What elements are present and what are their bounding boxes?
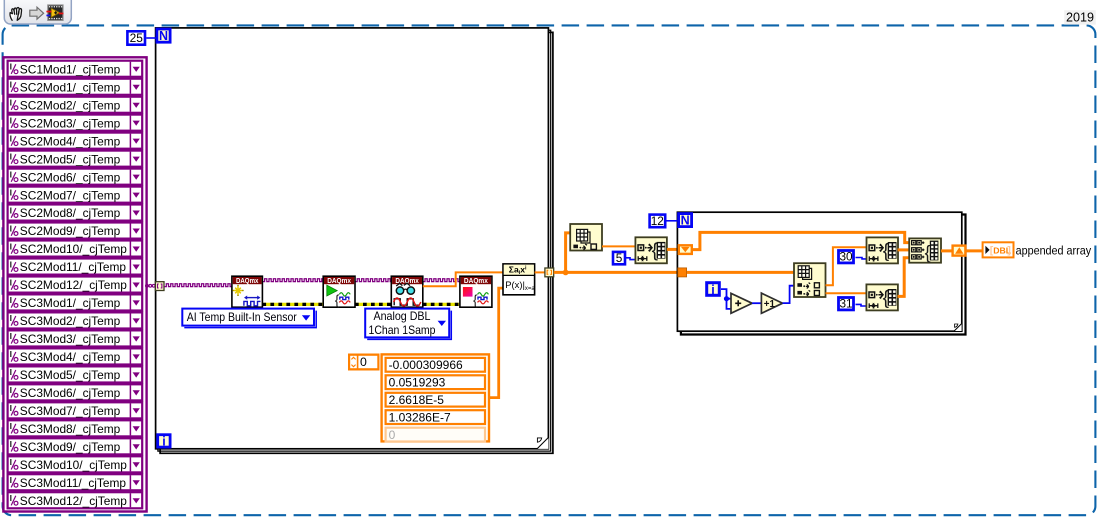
svg-text:2.6618E-5: 2.6618E-5 bbox=[389, 393, 445, 407]
for loop 1 resize dog-ear bbox=[537, 437, 549, 449]
svg-text:SC3Mod4/_cjTemp: SC3Mod4/_cjTemp bbox=[20, 350, 121, 364]
wire: add to increment bbox=[752, 302, 761, 304]
channel constant SC3Mod11/_cjTemp bbox=[8, 474, 143, 490]
loop 1 auto-indexing output tunnel bbox=[545, 268, 554, 277]
array size function bbox=[570, 224, 602, 251]
svg-text:I: I bbox=[10, 277, 12, 287]
array element 0.0519293 bbox=[386, 375, 485, 389]
build array function bbox=[909, 238, 941, 262]
wire 12 to N bbox=[666, 220, 677, 222]
numeric constant 30 bbox=[839, 251, 854, 263]
svg-text:31: 31 bbox=[839, 297, 852, 311]
channel constant SC2Mod12/_cjTemp bbox=[8, 277, 143, 293]
svg-text:i: i bbox=[711, 283, 714, 297]
svg-text:N: N bbox=[681, 214, 690, 228]
reshape array 3 bbox=[866, 284, 898, 310]
svg-text:SC1Mod1/_cjTemp: SC1Mod1/_cjTemp bbox=[20, 62, 121, 76]
wire junction at i bbox=[724, 296, 729, 301]
DAQmx Create Virtual Channel VI bbox=[232, 276, 263, 307]
left shift register bbox=[679, 245, 692, 254]
channel constant SC3Mod10/_cjTemp bbox=[8, 456, 143, 472]
svg-text:SC2Mod2/_cjTemp: SC2Mod2/_cjTemp bbox=[20, 98, 121, 112]
svg-text:+1: +1 bbox=[764, 299, 776, 310]
wire: tunnel to DAQmx create channel (task/channel zigzag) bbox=[164, 284, 232, 287]
svg-text:DAQmx: DAQmx bbox=[327, 276, 351, 285]
svg-text:SC3Mod12/_cjTemp: SC3Mod12/_cjTemp bbox=[20, 494, 127, 508]
svg-text:I: I bbox=[10, 241, 12, 251]
for loop 2 border bbox=[677, 212, 965, 334]
svg-text:N: N bbox=[159, 29, 168, 43]
hand (pan) tool icon bbox=[10, 8, 22, 21]
channel constant SC3Mod5/_cjTemp bbox=[8, 366, 143, 382]
channel constant SC3Mod1/_cjTemp bbox=[8, 294, 143, 310]
wire: 31 to reshape 3 bbox=[856, 304, 867, 306]
wire: index array out 1 to reshape 2 bbox=[826, 247, 867, 285]
svg-text:{: { bbox=[925, 243, 931, 263]
channel constant SC2Mod9/_cjTemp bbox=[8, 223, 143, 239]
DAQmx Read VI bbox=[391, 276, 423, 307]
polynomial evaluation node bbox=[503, 264, 535, 295]
svg-text:SC3Mod9/_cjTemp: SC3Mod9/_cjTemp bbox=[20, 440, 121, 454]
svg-text:I: I bbox=[10, 187, 12, 197]
svg-text:12: 12 bbox=[651, 214, 664, 228]
svg-text:I: I bbox=[10, 367, 12, 377]
channel constant SC3Mod6/_cjTemp bbox=[8, 384, 143, 400]
svg-text:2019: 2019 bbox=[1066, 11, 1094, 25]
wire: read to clear task bbox=[423, 279, 460, 282]
wire: index array out 2 to reshape 3 bbox=[826, 292, 867, 294]
wire junction bbox=[563, 270, 569, 276]
loop 1 auto-indexing input tunnel bbox=[155, 282, 164, 291]
svg-text:SC2Mod10/_cjTemp: SC2Mod10/_cjTemp bbox=[20, 242, 127, 256]
wire: array size to reshape array bbox=[602, 245, 635, 247]
svg-text:Σaixi: Σaixi bbox=[509, 264, 527, 275]
coefficient array constant shell bbox=[382, 354, 489, 441]
wire: coefficient array to polynomial node bbox=[489, 288, 503, 398]
svg-text:5: 5 bbox=[616, 251, 623, 265]
snippet toolbar bbox=[4, 0, 71, 24]
svg-text:I: I bbox=[10, 169, 12, 179]
channel constant SC2Mod7/_cjTemp bbox=[8, 187, 143, 203]
channel constant SC2Mod1/_cjTemp bbox=[8, 79, 143, 95]
svg-text:30: 30 bbox=[839, 250, 853, 264]
numeric constant 5 bbox=[613, 252, 625, 264]
array element 2.6618E-5 bbox=[386, 393, 485, 407]
svg-text:SC2Mod6/_cjTemp: SC2Mod6/_cjTemp bbox=[20, 170, 121, 184]
loop 1 count terminal N bbox=[157, 29, 170, 42]
svg-text:SC2Mod9/_cjTemp: SC2Mod9/_cjTemp bbox=[20, 224, 121, 238]
svg-text:SC2Mod11/_cjTemp: SC2Mod11/_cjTemp bbox=[20, 260, 127, 274]
reshape array 1 bbox=[635, 237, 667, 263]
VI snippet film icon bbox=[46, 5, 63, 20]
svg-text:SC2Mod3/_cjTemp: SC2Mod3/_cjTemp bbox=[20, 116, 121, 130]
svg-text:1.03286E-7: 1.03286E-7 bbox=[389, 411, 451, 425]
svg-text:SC2Mod1/_cjTemp: SC2Mod1/_cjTemp bbox=[20, 80, 121, 94]
index array function bbox=[794, 263, 826, 297]
svg-text:SC3Mod11/_cjTemp: SC3Mod11/_cjTemp bbox=[20, 476, 127, 490]
for loop 1 border bbox=[156, 28, 553, 453]
wire: start task to read bbox=[355, 279, 391, 282]
wire: build array to right shift register bbox=[941, 249, 953, 252]
loop 1 iteration terminal i bbox=[158, 435, 170, 447]
enum constant AI Temp Built-In Sensor bbox=[182, 309, 316, 328]
channel constant SC3Mod3/_cjTemp bbox=[8, 330, 143, 346]
channel constant SC2Mod3/_cjTemp bbox=[8, 115, 143, 131]
svg-text:{: { bbox=[473, 293, 478, 308]
DAQmx Start Task VI bbox=[323, 276, 355, 308]
wire: 30 to reshape 2 bbox=[856, 258, 867, 259]
channel constant SC2Mod5/_cjTemp bbox=[8, 151, 143, 167]
svg-text:SC2Mod5/_cjTemp: SC2Mod5/_cjTemp bbox=[20, 152, 121, 166]
arrow icon bbox=[30, 7, 44, 19]
svg-text:I: I bbox=[10, 133, 12, 143]
svg-text:0: 0 bbox=[389, 428, 396, 442]
svg-text:-0.000309966: -0.000309966 bbox=[389, 358, 463, 372]
svg-text:I: I bbox=[10, 403, 12, 413]
channel constant SC2Mod6/_cjTemp bbox=[8, 169, 143, 185]
right shift register bbox=[953, 246, 966, 256]
error wire start-read bbox=[355, 303, 391, 306]
for loop 2 resize dog-ear bbox=[954, 324, 961, 331]
array element dimmed 0 bbox=[386, 428, 485, 442]
DAQmx physical channel array constant bbox=[3, 57, 146, 511]
svg-text:SC3Mod3/_cjTemp: SC3Mod3/_cjTemp bbox=[20, 332, 121, 346]
svg-text:I: I bbox=[10, 223, 12, 233]
channel constant SC1Mod1/_cjTemp bbox=[8, 61, 143, 77]
numeric constant 25 bbox=[127, 31, 145, 44]
svg-text:I: I bbox=[10, 259, 12, 269]
svg-text:SC3Mod7/_cjTemp: SC3Mod7/_cjTemp bbox=[20, 404, 121, 418]
coefficient array index display bbox=[348, 354, 380, 371]
svg-text:I: I bbox=[10, 313, 12, 323]
channel constant SC2Mod10/_cjTemp bbox=[8, 241, 143, 257]
wire: increment to index array bbox=[783, 286, 794, 303]
svg-text:0: 0 bbox=[360, 355, 367, 369]
numeric constant 31 bbox=[839, 298, 854, 310]
svg-text:SC2Mod4/_cjTemp: SC2Mod4/_cjTemp bbox=[20, 134, 121, 148]
svg-text:I: I bbox=[10, 80, 12, 90]
channel constant SC3Mod7/_cjTemp bbox=[8, 402, 143, 418]
svg-text:I: I bbox=[10, 115, 12, 125]
svg-text:]: ] bbox=[1007, 246, 1010, 257]
svg-text:Analog DBL: Analog DBL bbox=[374, 309, 431, 323]
svg-text:i: i bbox=[162, 435, 165, 449]
channel constant SC3Mod12/_cjTemp bbox=[8, 492, 143, 508]
svg-text:DAQmx: DAQmx bbox=[236, 276, 259, 285]
array element 1.03286E-7 bbox=[386, 410, 485, 424]
channel constant SC2Mod11/_cjTemp bbox=[8, 259, 143, 275]
appended array DBL indicator bbox=[983, 242, 1014, 257]
svg-text:SC2Mod8/_cjTemp: SC2Mod8/_cjTemp bbox=[20, 206, 121, 220]
numeric constant 12 bbox=[650, 215, 666, 228]
enum constant Analog DBL 1Chan 1Samp bbox=[365, 309, 451, 340]
increment function bbox=[761, 293, 782, 313]
svg-text:DAQmx: DAQmx bbox=[464, 276, 488, 285]
channel constant SC3Mod8/_cjTemp bbox=[8, 420, 143, 436]
wire: 5 to reshape array bbox=[626, 258, 636, 260]
wire: left shift register to build array input 1 bbox=[692, 232, 909, 249]
wire: channel array to loop tunnel (dotted) bbox=[146, 284, 156, 287]
svg-text:SC3Mod5/_cjTemp: SC3Mod5/_cjTemp bbox=[20, 368, 121, 382]
svg-text:25: 25 bbox=[130, 31, 144, 45]
wire: reshape 1 to left shift register bbox=[667, 248, 678, 251]
svg-text:SC2Mod12/_cjTemp: SC2Mod12/_cjTemp bbox=[20, 278, 127, 292]
wire 25 to N bbox=[146, 37, 155, 39]
svg-text:I: I bbox=[10, 457, 12, 467]
svg-text:{: { bbox=[335, 293, 340, 308]
wire: junction up to array size bbox=[566, 233, 571, 271]
wire: right shift register to indicator bbox=[965, 249, 983, 252]
svg-text:SC3Mod6/_cjTemp: SC3Mod6/_cjTemp bbox=[20, 386, 121, 400]
svg-text:I: I bbox=[10, 475, 12, 485]
svg-text:SC2Mod7/_cjTemp: SC2Mod7/_cjTemp bbox=[20, 188, 121, 202]
svg-text:appended array: appended array bbox=[1016, 244, 1092, 258]
channel constant SC3Mod2/_cjTemp bbox=[8, 312, 143, 328]
error wire create-start bbox=[262, 303, 323, 306]
svg-text:I: I bbox=[10, 205, 12, 215]
reshape array 2 bbox=[867, 237, 899, 263]
svg-text:I: I bbox=[10, 349, 12, 359]
loop 2 iteration terminal i bbox=[707, 283, 720, 296]
wire: reshape 3 to build array input 3 bbox=[898, 258, 910, 297]
svg-text:SC3Mod8/_cjTemp: SC3Mod8/_cjTemp bbox=[20, 422, 121, 436]
svg-text:I: I bbox=[10, 98, 12, 108]
LabVIEW version label 2019 bbox=[1064, 10, 1096, 24]
channel constant SC2Mod2/_cjTemp bbox=[8, 97, 143, 113]
wire: create channel to start task bbox=[262, 279, 323, 282]
svg-text:I: I bbox=[10, 421, 12, 431]
svg-text:1Chan 1Samp: 1Chan 1Samp bbox=[369, 323, 436, 337]
channel constant SC2Mod4/_cjTemp bbox=[8, 133, 143, 149]
loop 2 input tunnel (solid) bbox=[678, 268, 687, 277]
svg-text:SC3Mod1/_cjTemp: SC3Mod1/_cjTemp bbox=[20, 296, 121, 310]
channel constant SC3Mod4/_cjTemp bbox=[8, 348, 143, 364]
wire: i to add inputs bbox=[721, 289, 731, 299]
wire: DAQmx read to polynomial node bbox=[423, 272, 503, 286]
svg-text:I: I bbox=[10, 493, 12, 503]
loop 2 count terminal N bbox=[679, 214, 692, 227]
channel constant SC3Mod9/_cjTemp bbox=[8, 438, 143, 454]
error wire read-clear bbox=[423, 303, 460, 306]
svg-text:SC3Mod10/_cjTemp: SC3Mod10/_cjTemp bbox=[20, 458, 127, 472]
wire inside loop 2 to index array bbox=[686, 271, 794, 274]
svg-text:I: I bbox=[10, 295, 12, 305]
wire: loop 1 tunnel to loop 2 (DBL array) bbox=[554, 271, 678, 274]
add function bbox=[731, 293, 752, 313]
array element -0.000309966 bbox=[386, 358, 485, 372]
svg-text:I: I bbox=[10, 385, 12, 395]
svg-text:SC3Mod2/_cjTemp: SC3Mod2/_cjTemp bbox=[20, 314, 121, 328]
svg-text:I: I bbox=[10, 62, 12, 72]
svg-text:0.0519293: 0.0519293 bbox=[389, 376, 446, 390]
DAQmx Clear Task VI bbox=[460, 276, 492, 308]
wire: reshape 2 to build array bbox=[898, 248, 910, 251]
svg-text:I: I bbox=[10, 151, 12, 161]
channel constant SC2Mod8/_cjTemp bbox=[8, 205, 143, 221]
svg-text:I: I bbox=[10, 331, 12, 341]
svg-text:AI Temp Built-In Sensor: AI Temp Built-In Sensor bbox=[187, 310, 297, 324]
svg-text:I: I bbox=[10, 439, 12, 449]
wire: polynomial node to output tunnel bbox=[535, 271, 545, 273]
